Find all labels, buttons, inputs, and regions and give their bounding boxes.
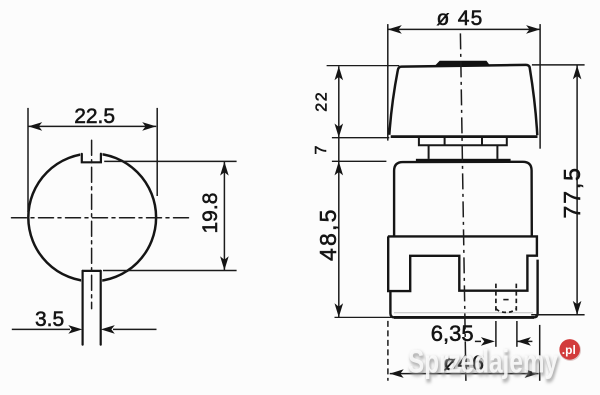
bottom housing bottom edge (394, 316, 534, 319)
svg-text:Sprzedajemy: Sprzedajemy (408, 344, 558, 380)
whiteout top notch arc (80, 149, 102, 162)
dimension 3.5 (12, 328, 157, 330)
svg-text:22.5: 22.5 (74, 105, 115, 128)
svg-text:ø: ø (437, 7, 450, 30)
collar tier 1 divider A (444, 138, 446, 146)
collar tier 1 divider B (481, 138, 483, 146)
vertical centerline (91, 140, 93, 308)
collar tier 2 right wall (496, 145, 498, 159)
svg-text:6,35: 6,35 (431, 321, 474, 346)
collar tier 1 (419, 138, 507, 146)
left dimension stack line (338, 66, 340, 317)
dimension 22.5 (28, 108, 157, 212)
svg-text:48,5: 48,5 (315, 207, 341, 261)
knob outline (389, 65, 537, 135)
svg-text:.pl: .pl (562, 343, 576, 357)
horizontal centerline (12, 217, 191, 219)
svg-text:22: 22 (314, 91, 331, 112)
svg-text:19.8: 19.8 (199, 193, 222, 234)
extension line body top (332, 160, 387, 162)
bottom housing right side (534, 260, 538, 318)
top key notch (82, 154, 101, 163)
base flange and housing outline (388, 236, 537, 291)
bottom key notch flat (83, 270, 101, 272)
hidden terminal tip (dashed) (496, 309, 516, 313)
extension line housing bottom (335, 316, 392, 318)
extension line knob top (327, 65, 400, 67)
dimension 77,5 (531, 65, 584, 315)
mounting washer bar (filled) (416, 159, 511, 162)
body upper shell (394, 162, 532, 237)
dimension 19.8 (103, 161, 237, 270)
whiteout bottom notch arc (81, 272, 102, 283)
knob skirt bottom edge (391, 135, 538, 138)
watermark badge (559, 339, 581, 361)
dimension 6,35 (475, 321, 533, 347)
dimension phi46 bottom (388, 321, 540, 381)
svg-text:45: 45 (458, 7, 484, 30)
svg-text:77,5: 77,5 (559, 166, 585, 218)
mounting hole circle (28, 154, 156, 282)
right view centerline (460, 33, 466, 381)
hidden terminal left edge (dashed) (495, 284, 497, 311)
terminal center tick (503, 299, 508, 301)
slot right wall (100, 271, 102, 345)
hidden terminal right edge (dashed) (515, 284, 517, 311)
svg-text:3.5: 3.5 (35, 308, 64, 331)
dimension phi45 (388, 24, 540, 149)
collar tier 2 left wall (428, 145, 430, 159)
extension line knob bottom (332, 137, 389, 139)
watermark text (408, 344, 559, 383)
bottom key notch and slot left wall (81, 271, 83, 345)
knob top tab (filled) (435, 61, 489, 66)
bottom housing left side (390, 291, 394, 317)
svg-text:7: 7 (313, 146, 330, 155)
housing parting line (faint) (394, 312, 533, 314)
